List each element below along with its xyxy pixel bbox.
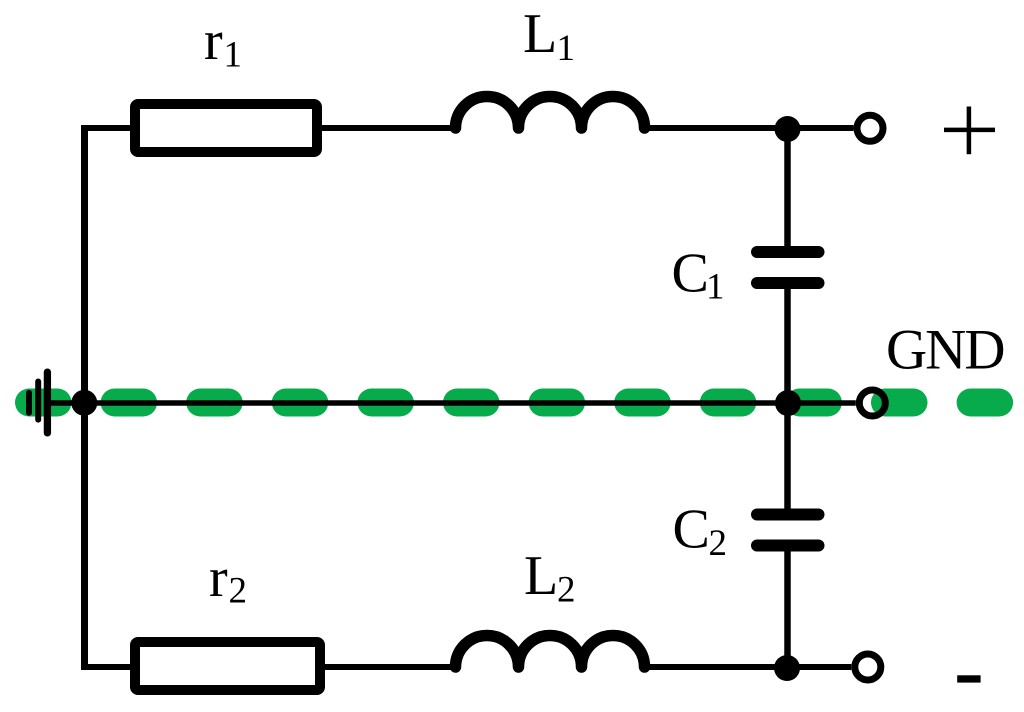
junction top node	[775, 116, 801, 142]
svg-text:1: 1	[224, 34, 243, 75]
svg-text:L: L	[524, 545, 558, 607]
svg-text:r: r	[204, 10, 223, 72]
junction GND-right node	[775, 390, 801, 416]
wire C1 top lead	[784, 128, 791, 247]
svg-text:2: 2	[557, 570, 576, 611]
wire bottom rail left segment	[81, 664, 132, 670]
svg-text:2: 2	[229, 571, 248, 612]
svg-text:C: C	[672, 243, 709, 305]
wire mid GND rail	[44, 400, 856, 406]
wire left vertical bus	[81, 125, 88, 670]
inductor L2	[456, 636, 645, 667]
junction bottom node	[774, 655, 800, 681]
svg-text:1: 1	[557, 28, 576, 69]
capacitor C2	[757, 515, 819, 546]
resistor r2	[135, 642, 320, 690]
wire bottom rail between r2 and L2	[323, 664, 458, 670]
svg-text:C: C	[673, 498, 710, 560]
node GND net (green dashed rail)	[29, 389, 1024, 417]
junction GND-left node	[71, 390, 97, 416]
wire C2 bottom lead	[784, 551, 791, 667]
svg-text:1: 1	[706, 267, 725, 308]
wire C2 top lead from GND rail	[784, 403, 791, 509]
capacitor C1	[757, 252, 819, 283]
inductor L1	[456, 97, 645, 128]
wire C1 bottom lead to GND rail	[784, 289, 791, 404]
terminal + circle	[857, 115, 883, 141]
wire top rail between L1 and + terminal	[640, 125, 854, 131]
terminal - sign	[957, 675, 980, 682]
terminal + sign	[944, 107, 995, 155]
terminal GND circle	[859, 390, 885, 416]
wire bottom rail between L2 and - terminal	[640, 664, 851, 670]
terminal - circle	[855, 654, 881, 680]
ground symbol	[29, 372, 47, 433]
svg-text:r: r	[209, 547, 228, 609]
wire top rail left segment	[81, 125, 132, 131]
svg-text:L: L	[523, 3, 557, 65]
wire top rail between r1 and L1	[320, 125, 458, 131]
svg-text:GND: GND	[886, 319, 1004, 382]
svg-text:2: 2	[709, 523, 728, 564]
resistor r1	[135, 104, 317, 152]
